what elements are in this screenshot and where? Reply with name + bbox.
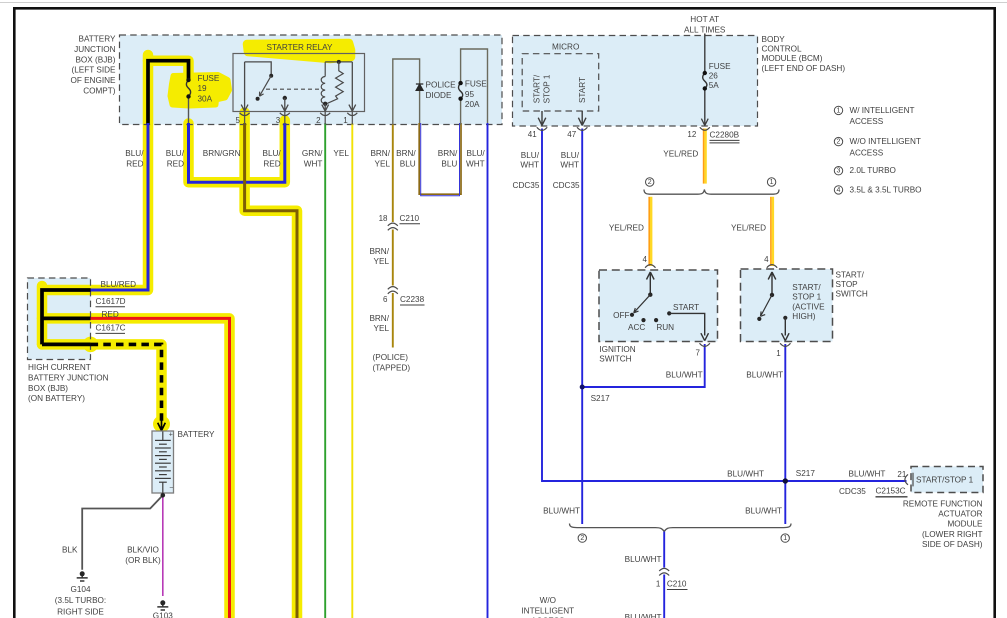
ignition switch arm — [634, 295, 651, 313]
svg-text:START/: START/ — [533, 74, 542, 103]
relay contact pin 5 line with arrow — [241, 62, 248, 111]
wire BRN/BLU police diode to fuse 95 — [419, 123, 461, 194]
svg-text:C210: C210 — [400, 214, 420, 223]
relay coil top bar — [325, 61, 352, 63]
highlighter blob over fuse 19 — [171, 75, 230, 106]
wire gray loop inside BJB to police diode — [393, 59, 420, 125]
start/stop arm end dot — [757, 317, 761, 321]
wire YEL/RED branch 1 to start/stop switch pin 4 — [771, 197, 773, 266]
wire YEL/RED BCM pin 12 to brace — [704, 129, 706, 184]
relay coil — [321, 62, 325, 104]
ignition switch pivot dot — [648, 293, 652, 297]
svg-text:BLK: BLK — [62, 546, 78, 555]
svg-text:−: − — [169, 485, 173, 492]
svg-text:FUSE: FUSE — [198, 74, 220, 83]
circled 2 at merge brace — [578, 534, 586, 542]
ignition START dot — [667, 311, 671, 315]
body control module (BCM) border — [513, 36, 758, 127]
svg-text:BOX (BJB): BOX (BJB) — [75, 55, 115, 64]
svg-text:MODULE (BCM): MODULE (BCM) — [762, 54, 823, 63]
svg-text:BLU/WHT: BLU/WHT — [625, 613, 662, 618]
fuse 26 terminal dots — [703, 71, 707, 75]
connector cup relay pin 3 — [280, 113, 290, 116]
wire BRN/GRN from relay pin 5 to bottom — [245, 123, 297, 618]
splice S217 dot on pin 47 wire — [580, 385, 585, 390]
connector cap start/stop switch pin 4 — [767, 265, 777, 268]
svg-text:41: 41 — [528, 130, 537, 139]
page frame top hairline — [0, 2, 1007, 4]
remote function actuator module box border — [911, 467, 983, 493]
svg-text:SWITCH: SWITCH — [836, 290, 868, 299]
svg-text:BRN/: BRN/ — [369, 314, 389, 323]
svg-text:(LOWER RIGHT: (LOWER RIGHT — [922, 530, 983, 539]
brace splitting YEL/RED — [644, 190, 779, 195]
svg-text:12: 12 — [687, 130, 696, 139]
wire BLU/RED fuse 19 to relay pin 3 — [189, 123, 285, 182]
start/stop switch input arrow — [768, 272, 776, 295]
svg-text:BATTERY: BATTERY — [78, 35, 116, 44]
fuse 26 element — [703, 73, 707, 89]
wire gray fuse 19 tail — [188, 97, 190, 125]
highlighter band over black jumper to fuse 19 — [148, 61, 189, 75]
wire RED from C1617C to bottom — [91, 318, 230, 618]
svg-text:21: 21 — [897, 470, 906, 479]
svg-text:1: 1 — [770, 179, 774, 186]
brace merging BLU/WHT — [570, 524, 792, 532]
svg-text:2.0L TURBO: 2.0L TURBO — [850, 166, 896, 175]
svg-text:CDC35: CDC35 — [839, 487, 866, 496]
svg-text:1: 1 — [656, 580, 661, 589]
svg-text:BRN/: BRN/ — [438, 149, 458, 158]
svg-text:19: 19 — [198, 84, 208, 93]
svg-text:HIGH CURRENT: HIGH CURRENT — [28, 363, 91, 372]
start/stop switch box border — [741, 269, 833, 342]
wire BLU/WHT ignition pin 7 to splice S217 — [584, 344, 705, 387]
svg-text:YEL/RED: YEL/RED — [731, 224, 766, 233]
svg-text:C2153C: C2153C — [876, 487, 906, 496]
ignition switch box fill — [599, 270, 718, 342]
wire BLU/WHT from brace to C210 pin 1 — [663, 532, 665, 618]
svg-text:BLU: BLU — [441, 159, 457, 168]
fuse 95 terminal dots — [458, 81, 462, 85]
svg-text:COMPT): COMPT) — [83, 87, 116, 96]
remote function actuator module box fill — [911, 467, 983, 493]
circled 2 at split brace — [578, 106, 843, 542]
svg-text:BLU/: BLU/ — [166, 149, 185, 158]
connector cup relay pin 2 — [320, 113, 330, 116]
relay resistor junction dot — [337, 60, 341, 64]
svg-text:1: 1 — [837, 107, 841, 114]
svg-text:FUSE: FUSE — [709, 62, 731, 71]
relay resistor zigzag — [327, 62, 343, 104]
svg-text:RIGHT SIDE: RIGHT SIDE — [57, 608, 104, 617]
svg-text:INTELLIGENT: INTELLIGENT — [521, 606, 574, 615]
relay contact lower dot — [256, 97, 260, 101]
svg-text:4: 4 — [764, 255, 769, 264]
arrow at battery positive — [158, 419, 166, 431]
svg-text:BLU/WHT: BLU/WHT — [543, 507, 580, 516]
svg-text:(LEFT SIDE: (LEFT SIDE — [72, 66, 117, 75]
svg-text:YEL: YEL — [374, 324, 390, 333]
svg-text:START/STOP 1: START/STOP 1 — [916, 475, 974, 484]
fuse 19 terminal dots — [186, 78, 190, 82]
svg-text:BLU/: BLU/ — [125, 149, 144, 158]
connector cup BCM pin 12 C2280B — [700, 127, 710, 130]
svg-text:47: 47 — [567, 130, 576, 139]
wire black trunk in high current BJB — [42, 290, 91, 344]
svg-text:POLICE: POLICE — [426, 81, 457, 90]
svg-text:HIGH): HIGH) — [792, 312, 815, 321]
wire BLU/WHT from fuse 95 to bottom — [487, 123, 489, 618]
svg-text:RUN: RUN — [656, 323, 674, 332]
splice S217 dot on horizontal run — [783, 478, 788, 483]
svg-text:ACTUATOR: ACTUATOR — [938, 510, 982, 519]
svg-text:6: 6 — [383, 295, 388, 304]
svg-text:OFF: OFF — [613, 311, 629, 320]
svg-text:3: 3 — [837, 168, 841, 175]
highlighter blob over STARTER RELAY label — [247, 43, 351, 59]
svg-text:MICRO: MICRO — [552, 43, 579, 52]
svg-text:WHT: WHT — [304, 159, 323, 168]
relay pin 3 dot — [283, 96, 287, 100]
svg-text:1: 1 — [776, 349, 781, 358]
svg-text:1: 1 — [783, 535, 787, 542]
ignition ACC dot — [641, 318, 645, 322]
svg-text:START/: START/ — [792, 283, 821, 292]
svg-text:(ACTIVE: (ACTIVE — [792, 302, 825, 311]
svg-text:YEL/RED: YEL/RED — [609, 224, 644, 233]
wire fuse 26 to BCM pin 12 — [704, 89, 706, 125]
svg-text:2: 2 — [580, 535, 584, 542]
svg-text:RED: RED — [263, 159, 280, 168]
svg-text:S217: S217 — [796, 469, 816, 478]
svg-text:BLU/WHT: BLU/WHT — [666, 370, 703, 379]
svg-text:BLU/: BLU/ — [561, 151, 580, 160]
svg-text:DIODE: DIODE — [426, 91, 452, 100]
svg-text:BATTERY: BATTERY — [178, 430, 216, 439]
battery plates — [155, 432, 171, 494]
svg-text:BLU/WHT: BLU/WHT — [849, 469, 886, 478]
svg-text:OF ENGINE: OF ENGINE — [70, 76, 116, 85]
inline connector C210 pin 18 — [388, 223, 398, 230]
svg-text:RED: RED — [167, 159, 184, 168]
svg-text:MODULE: MODULE — [947, 520, 983, 529]
ignition RUN dot — [654, 318, 658, 322]
svg-text:W/ INTELLIGENT: W/ INTELLIGENT — [850, 106, 915, 115]
connector bracket remote module pin 21 — [905, 473, 913, 487]
micro output arrow pin 47 — [578, 111, 586, 126]
svg-text:START: START — [673, 303, 699, 312]
svg-text:YEL: YEL — [374, 257, 390, 266]
svg-text:BLU: BLU — [400, 159, 416, 168]
relay actuation dashed link — [266, 88, 322, 90]
start/stop contact dot — [783, 316, 787, 320]
svg-text:SWITCH: SWITCH — [599, 354, 631, 363]
svg-text:ALL TIMES: ALL TIMES — [684, 25, 726, 34]
svg-text:30A: 30A — [198, 95, 213, 104]
inline connector C2238 pin 6 — [388, 287, 398, 294]
connector cup relay pin 5 — [240, 113, 250, 116]
relay pin 1 line with arrow — [349, 62, 356, 111]
highlighter band over black trunk in high current BJB — [37, 286, 48, 344]
relay pin 2 line with arrow — [322, 104, 329, 111]
svg-text:STARTER RELAY: STARTER RELAY — [267, 43, 334, 52]
relay pin stubs through BJB edge — [245, 112, 353, 125]
svg-text:(LEFT END OF DASH): (LEFT END OF DASH) — [762, 64, 846, 73]
connector cap ignition switch pin 4 — [645, 265, 655, 268]
battery junction box (BJB) fill — [120, 35, 503, 125]
wire BLU/WHT start/stop pin 1 to brace — [784, 344, 786, 524]
start/stop switch arm — [761, 295, 773, 316]
svg-text:GRN/: GRN/ — [302, 149, 323, 158]
svg-text:4: 4 — [837, 187, 841, 194]
wire BLK battery negative to G104 — [82, 495, 163, 570]
start/stop switch pivot dot — [770, 293, 774, 297]
svg-text:BLU/WHT: BLU/WHT — [745, 507, 782, 516]
svg-text:(3.5L TURBO:: (3.5L TURBO: — [55, 596, 106, 605]
ground G103 symbol — [157, 600, 168, 610]
svg-text:BLU/WHT: BLU/WHT — [746, 370, 783, 379]
highlighter ring at dashed wire start — [85, 339, 96, 350]
svg-text:2: 2 — [648, 179, 652, 186]
battery negative dot — [161, 493, 166, 498]
highlighter ring at battery arrow — [156, 418, 168, 430]
svg-text:(ON BATTERY): (ON BATTERY) — [28, 394, 85, 403]
svg-text:C1617C: C1617C — [96, 323, 126, 332]
svg-text:HOT AT: HOT AT — [690, 15, 719, 24]
svg-text:3.5L & 3.5L TURBO: 3.5L & 3.5L TURBO — [850, 185, 922, 194]
svg-text:START/: START/ — [836, 270, 865, 279]
svg-text:BLU/WHT: BLU/WHT — [625, 555, 662, 564]
svg-text:RED: RED — [102, 310, 119, 319]
wire YEL/RED branch 2 to ignition switch pin 4 — [649, 197, 651, 266]
svg-text:26: 26 — [709, 72, 719, 81]
fuse 19 element — [186, 80, 190, 97]
svg-text:BLU/WHT: BLU/WHT — [727, 469, 764, 478]
svg-text:3: 3 — [276, 116, 281, 125]
svg-text:4: 4 — [643, 255, 648, 264]
svg-text:CDC35: CDC35 — [513, 181, 540, 190]
svg-text:YEL: YEL — [375, 159, 391, 168]
svg-text:JUNCTION: JUNCTION — [74, 45, 115, 54]
ignition switch box border — [599, 270, 718, 342]
battery box — [152, 431, 174, 493]
svg-text:W/O: W/O — [540, 596, 556, 605]
wire hot at all times into BCM fuse 26 — [704, 34, 706, 74]
ground G104 symbol — [77, 571, 88, 581]
relay coil bottom dot — [323, 102, 327, 106]
highlighter band over BRN/GRN wire from relay pin 5 — [245, 113, 297, 618]
svg-text:YEL: YEL — [333, 149, 349, 158]
svg-text:5: 5 — [236, 116, 241, 125]
svg-text:CONTROL: CONTROL — [762, 45, 802, 54]
svg-text:BRN/: BRN/ — [369, 247, 389, 256]
svg-text:(OR BLK): (OR BLK) — [125, 556, 161, 565]
svg-text:BLU/: BLU/ — [262, 149, 281, 158]
wire YEL from relay pin 1 to bottom — [351, 123, 353, 618]
relay contact arm — [260, 76, 272, 97]
highlighter band over RED wire — [42, 318, 230, 618]
highlighter band over left BLU/RED wire — [44, 55, 148, 290]
svg-text:BLK/VIO: BLK/VIO — [127, 546, 159, 555]
wire BRN/YEL police tap — [392, 125, 394, 348]
svg-text:STOP 1: STOP 1 — [543, 74, 552, 103]
connector cup relay pin 1 — [347, 113, 357, 116]
svg-text:STOP: STOP — [836, 280, 859, 289]
battery junction box (BJB) border — [120, 35, 503, 125]
svg-text:BLU/: BLU/ — [466, 149, 485, 158]
svg-text:C2238: C2238 — [400, 295, 425, 304]
legend circled numbers — [834, 106, 842, 114]
svg-text:ACCESS: ACCESS — [850, 148, 884, 157]
svg-text:WHT: WHT — [466, 159, 485, 168]
svg-text:REMOTE FUNCTION: REMOTE FUNCTION — [903, 499, 983, 508]
wire dashed battery positive feed — [91, 344, 162, 421]
svg-text:BRN/: BRN/ — [370, 149, 390, 158]
ignition OFF dot — [630, 313, 634, 317]
svg-text:7: 7 — [696, 349, 701, 358]
relay contact top jumper — [245, 62, 272, 74]
svg-text:BLU/RED: BLU/RED — [101, 280, 137, 289]
svg-text:5A: 5A — [709, 81, 720, 90]
body control module (BCM) box fill — [513, 36, 758, 127]
connector cup BCM pin 47 — [577, 127, 587, 130]
svg-text:CDC35: CDC35 — [553, 181, 580, 190]
svg-text:C2280B: C2280B — [710, 130, 740, 139]
svg-text:18: 18 — [379, 214, 388, 223]
police diode — [416, 84, 423, 90]
inline connector C210 pin 1 — [659, 568, 669, 575]
svg-text:BRN/: BRN/ — [396, 149, 416, 158]
svg-text:20A: 20A — [465, 100, 480, 109]
svg-text:2: 2 — [316, 116, 321, 125]
start/stop contact line to pin 1 — [782, 318, 790, 341]
svg-text:WHT: WHT — [520, 161, 539, 170]
relay pin 3 line with arrow — [281, 98, 288, 111]
highlighter band over dashed battery feed wire — [42, 344, 162, 426]
connector cup start/stop switch pin 1 — [780, 343, 790, 346]
circled 1 at merge brace — [781, 534, 789, 542]
svg-text:YEL/RED: YEL/RED — [663, 149, 698, 158]
wire BLU/WHT BCM pin 41 to remote module pin 21 — [542, 129, 907, 482]
high current BJB border — [28, 278, 91, 360]
svg-text:BODY: BODY — [762, 35, 786, 44]
starter relay box — [233, 54, 365, 112]
svg-text:BLU/: BLU/ — [521, 151, 540, 160]
svg-text:(POLICE): (POLICE) — [373, 353, 409, 362]
micro box border — [522, 54, 599, 111]
wire BLU/WHT BCM pin 47 to brace — [581, 129, 583, 525]
connector cup ignition switch pin 7 — [700, 343, 710, 346]
svg-text:BOX (BJB): BOX (BJB) — [28, 384, 68, 393]
svg-text:STOP 1: STOP 1 — [792, 293, 821, 302]
svg-text:BATTERY JUNCTION: BATTERY JUNCTION — [28, 373, 109, 382]
svg-text:FUSE: FUSE — [465, 79, 487, 88]
svg-text:1: 1 — [343, 116, 348, 125]
high current BJB box fill — [28, 278, 91, 360]
svg-text:95: 95 — [465, 90, 475, 99]
svg-text:BRN/GRN: BRN/GRN — [203, 149, 241, 158]
wire gray fuse 95 column inside BJB — [461, 49, 488, 125]
svg-text:C210: C210 — [667, 580, 687, 589]
svg-text:SIDE OF DASH): SIDE OF DASH) — [922, 540, 983, 549]
svg-text:IGNITION: IGNITION — [599, 345, 635, 354]
svg-text:RED: RED — [126, 159, 143, 168]
svg-text:(TAPPED): (TAPPED) — [373, 364, 411, 373]
svg-text:2: 2 — [837, 139, 841, 146]
svg-text:G104: G104 — [70, 585, 90, 594]
svg-text:ACCESS: ACCESS — [850, 117, 884, 126]
fuse 95 element — [459, 83, 463, 99]
svg-text:+: + — [169, 432, 173, 439]
arrow at BCM pin 12 — [701, 119, 708, 126]
connector cup BCM pin 41 — [537, 127, 547, 130]
ignition switch input arrow — [647, 272, 655, 295]
svg-text:ACC: ACC — [628, 323, 645, 332]
wire BLK/VIO battery negative to G103 — [162, 495, 164, 596]
svg-text:S217: S217 — [591, 394, 611, 403]
svg-text:G103: G103 — [153, 611, 173, 618]
svg-text:WHT: WHT — [560, 161, 579, 170]
svg-text:W/O INTELLIGENT: W/O INTELLIGENT — [850, 137, 921, 146]
start/stop switch box fill — [741, 269, 833, 342]
ignition START contact line to pin 7 — [669, 313, 708, 340]
svg-text:START: START — [578, 77, 587, 103]
wire black feed to fuse 19 — [148, 61, 189, 125]
wire GRN/WHT from relay pin 2 to bottom — [324, 123, 326, 618]
highlighter band under fuse 19 to relay pin 3 — [189, 121, 285, 183]
micro output arrow pin 41 — [538, 111, 546, 126]
svg-text:C1617D: C1617D — [96, 297, 126, 306]
relay contact pivot dot — [269, 74, 273, 78]
wire BLU/RED column 1 down to high current BJB — [90, 123, 148, 290]
